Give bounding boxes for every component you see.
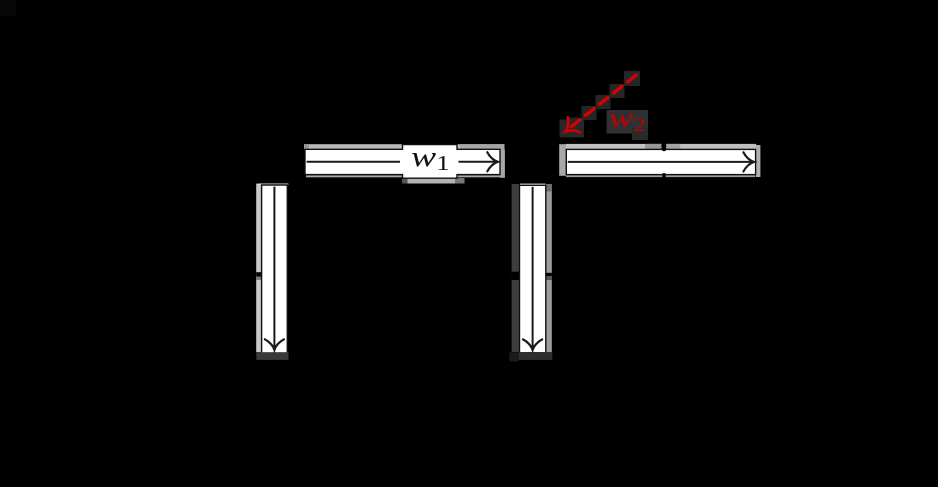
- middle vertical arrow white body: [520, 185, 546, 352]
- junction ticks on right horizontal arrow: [662, 147, 665, 178]
- left vertical arrow arrowhead: [265, 339, 284, 350]
- label w2: [609, 103, 646, 135]
- label w2 halo: [607, 110, 649, 140]
- middle vertical arrow arrowhead: [523, 339, 542, 350]
- label w1: [411, 141, 450, 176]
- right horizontal arrow shaft: [568, 161, 752, 163]
- arrow w1 white body: [305, 145, 500, 179]
- right horizontal arrow white body: [566, 149, 755, 174]
- arrow w1 halo: [304, 144, 505, 183]
- red dashed arrow w2 dashes: [568, 75, 636, 129]
- left vertical arrow shaft: [273, 187, 275, 348]
- left vertical arrow halo: [256, 184, 288, 360]
- arrow w1 shaft: [307, 161, 496, 163]
- red dashed arrow w2 halo: [560, 71, 641, 137]
- left vertical arrow white body: [262, 185, 288, 352]
- right horizontal arrow halo: [559, 144, 760, 177]
- arrow w1 arrowhead: [487, 152, 498, 171]
- middle vertical arrow shaft: [532, 187, 534, 348]
- red dashed arrow w2 arrowhead: [560, 117, 580, 139]
- middle vertical arrow halo: [509, 184, 552, 362]
- right horizontal arrow arrowhead: [743, 152, 754, 171]
